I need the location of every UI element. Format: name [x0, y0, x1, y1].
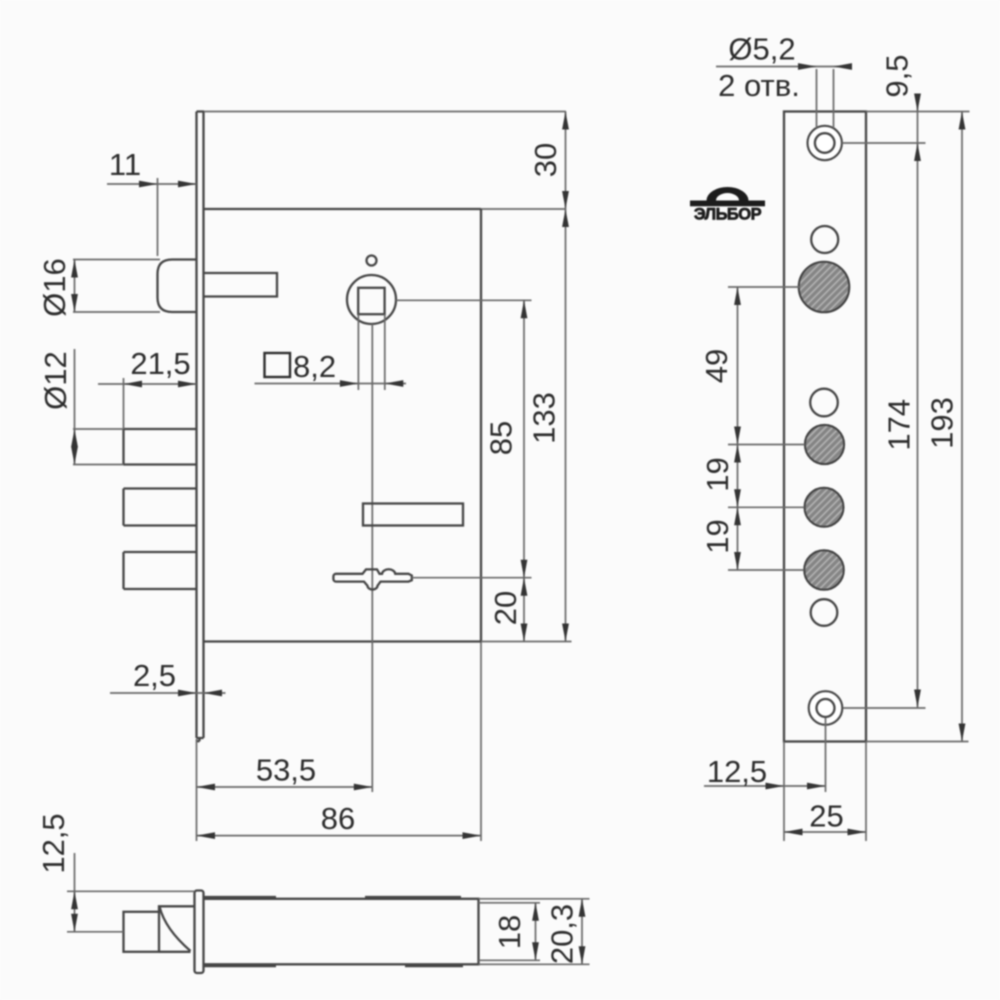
- svg-text:85: 85: [484, 421, 519, 455]
- svg-text:12,5: 12,5: [707, 754, 767, 789]
- ELBOR logo arch: [707, 187, 749, 201]
- extension of plate left edge down: [783, 742, 785, 842]
- svg-text:20,3: 20,3: [545, 904, 580, 964]
- dim 12,5 line: [74, 853, 76, 932]
- dim Ø12 extension lines: [73, 429, 124, 465]
- svg-text:12,5: 12,5: [36, 813, 71, 873]
- extension from top hole to 9,5/174 dim: [842, 142, 926, 144]
- middle slider bar: [363, 504, 463, 526]
- dim 53,5 arrows: [197, 784, 216, 791]
- svg-text:49: 49: [699, 349, 734, 383]
- dim 193 arrows: [959, 112, 966, 130]
- dim 12,5 arrows: [766, 783, 785, 790]
- faceplate top cap: [197, 110, 205, 112]
- dim 30/133 line: [565, 112, 567, 642]
- extension of faceplate left edge down to 53,5/86 dims: [196, 739, 198, 841]
- faceplate side bar: [195, 891, 204, 974]
- dim 174 bottom arrow: [914, 690, 921, 708]
- dim 21,5 arrows: [124, 381, 143, 388]
- dim 85 arrows: [521, 300, 528, 318]
- svg-text:30: 30: [528, 143, 563, 177]
- hole 8 small: [811, 599, 838, 626]
- extension lines from hatched holes to 49/19/19 dims: [728, 287, 805, 570]
- dim Ø5,2 leader line: [716, 66, 852, 68]
- hole 7 hatched: [804, 550, 844, 590]
- dim 86 line: [197, 835, 482, 837]
- body side outline: [204, 899, 479, 965]
- hole 6 hatched: [805, 488, 844, 527]
- dim 20,3 arrows: [579, 899, 586, 917]
- dim 49 arrows: [734, 287, 741, 305]
- svg-text:133: 133: [527, 392, 562, 444]
- svg-text:53,5: 53,5: [256, 753, 316, 788]
- dim Ø5,2 arrows: [798, 63, 817, 70]
- follower square hole: [358, 288, 384, 314]
- svg-text:21,5: 21,5: [130, 346, 190, 381]
- svg-text:2,5: 2,5: [133, 658, 176, 693]
- bottom screw hole counterbore: [809, 691, 843, 725]
- dim 20 arrows: [521, 578, 528, 596]
- dim Ø12 arrows: [71, 429, 78, 447]
- extension of plate bottom to 193 dim: [866, 741, 969, 743]
- dim 18 line: [535, 903, 537, 961]
- latch head side rect: [124, 912, 160, 952]
- extension of plate right edge down: [865, 742, 867, 842]
- center line through follower and keyhole: [371, 324, 373, 792]
- keyhole: [333, 569, 411, 589]
- svg-text:Ø12: Ø12: [38, 351, 73, 410]
- extension of plate top to 193 dim: [866, 111, 970, 113]
- dim 11 arrow at 196.5: [178, 181, 197, 188]
- dim 86 arrows: [197, 832, 216, 839]
- bottom mounting tab lines: [204, 965, 464, 967]
- dim 30 arrows: [562, 112, 569, 130]
- latch tail bar inside body: [204, 273, 278, 297]
- extension lines right of side view: [479, 899, 590, 965]
- extension from bottom hole to 174 dim: [843, 707, 926, 709]
- dim 11 arrow at 157.5: [139, 181, 158, 188]
- dim 11 extension line at latch left: [157, 178, 159, 256]
- svg-text:19: 19: [700, 519, 735, 553]
- lock body top edge: [204, 208, 482, 210]
- dim 21,5 line: [98, 383, 197, 385]
- ELBOR logo bar: [690, 201, 765, 207]
- dim Ø16 line: [74, 260, 76, 313]
- dim 18 arrows: [532, 903, 539, 921]
- small pin hole above follower: [367, 256, 377, 266]
- faceplate front view left edge: [195, 112, 197, 739]
- deadbolt row 1: [124, 429, 197, 465]
- svg-text:11: 11: [109, 147, 141, 182]
- follower circle: [347, 275, 396, 324]
- svg-text:2 отв.: 2 отв.: [718, 68, 800, 103]
- extension of body top to 30/133 dim: [481, 208, 566, 210]
- dim 11 line: [107, 183, 197, 185]
- label square symbol: [265, 353, 291, 377]
- svg-text:18: 18: [492, 915, 527, 949]
- hole 3 large hatched: [799, 262, 850, 313]
- dim 9,5 / 174 line: [917, 94, 919, 708]
- lock body bottom edge: [204, 640, 482, 642]
- deadbolt row 2: [124, 489, 197, 526]
- svg-text:Ø5,2: Ø5,2: [728, 32, 795, 67]
- svg-text:25: 25: [809, 799, 843, 834]
- svg-text:193: 193: [925, 397, 960, 449]
- svg-text:174: 174: [881, 399, 916, 451]
- dim 21,5 extension line: [123, 378, 125, 429]
- dim 12,5 line: [704, 785, 826, 787]
- svg-text:Ø16: Ø16: [37, 258, 72, 317]
- hole 2 small: [811, 226, 838, 253]
- latch bolt head (Ø16 stadium): [158, 260, 197, 313]
- dim 25 arrows: [784, 829, 803, 836]
- dim 53,5 line: [197, 786, 373, 788]
- dim 193 line: [961, 112, 963, 742]
- top mounting tab lines: [204, 896, 462, 898]
- hole 4 small: [810, 389, 838, 417]
- bottom screw hole inner: [817, 699, 835, 717]
- svg-text:86: 86: [321, 801, 355, 836]
- dim 9,5 arrows (outside): [914, 94, 921, 112]
- follower square extension lines down: [358, 314, 384, 390]
- svg-text:8,2: 8,2: [293, 349, 336, 384]
- dim Ø12 line: [74, 349, 76, 465]
- dim Ø16 extension lines: [73, 260, 160, 313]
- extension line from faceplate top to 30 dim: [204, 111, 566, 113]
- latch bevel: [159, 906, 195, 952]
- dim Ø16 arrows: [71, 260, 78, 278]
- svg-text:ЭЛЬБОР: ЭЛЬБОР: [694, 206, 762, 224]
- dim 2,5 arrows: [178, 690, 197, 697]
- extension of body bottom to 133 dim: [481, 641, 572, 643]
- svg-text:9,5: 9,5: [880, 54, 915, 97]
- hole 5 hatched: [805, 425, 844, 464]
- dim 12,5 extension lines: [67, 891, 195, 932]
- dim 85/20 line: [523, 300, 525, 641]
- faceplate bottom small step: [197, 738, 200, 741]
- faceplate front view right edge: [197, 112, 204, 739]
- dim Ø5,2 extension lines: [817, 69, 834, 128]
- dim 2,5 line: [110, 692, 226, 694]
- dim square 8,2 line: [255, 383, 407, 385]
- dim 49/19/19 line: [737, 287, 739, 570]
- extension from bottom hole down: [825, 718, 827, 792]
- dim 19b arrows: [734, 507, 741, 525]
- top screw hole counterbore: [808, 126, 842, 160]
- extension of body right edge down to 86 dim: [480, 642, 482, 842]
- svg-text:20: 20: [488, 591, 523, 625]
- dim 133 arrows: [562, 209, 569, 227]
- plate outline: [784, 112, 866, 742]
- svg-text:19: 19: [700, 457, 735, 491]
- dim 12,5 arrows: [71, 891, 78, 909]
- deadbolt row 3: [124, 552, 197, 589]
- dim 25 line: [784, 831, 866, 833]
- extension from keyhole right to 85/20 dim: [412, 577, 532, 579]
- lock body right edge: [480, 209, 482, 642]
- top screw hole inner: [815, 133, 835, 153]
- dim 20,3 line: [581, 899, 583, 965]
- dim 8,2 arrows: [340, 380, 359, 387]
- dim 19a arrows: [734, 445, 741, 463]
- extension from follower right to 85 dim: [396, 299, 532, 301]
